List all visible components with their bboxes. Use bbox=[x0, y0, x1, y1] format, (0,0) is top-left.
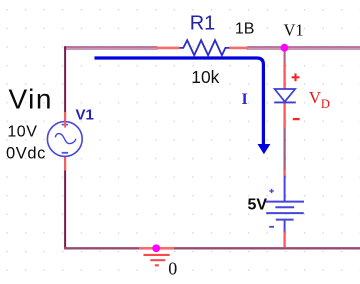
svg-text:10V: 10V bbox=[7, 124, 37, 141]
voltage source minus mark bbox=[62, 152, 68, 154]
wire left vertical bbox=[64, 46, 66, 112]
battery minus mark bbox=[269, 226, 274, 228]
resistor R1 body bbox=[180, 40, 230, 55]
voltage source plus mark bbox=[62, 124, 68, 126]
svg-text:V1: V1 bbox=[76, 107, 94, 124]
wire left vertical lower bbox=[64, 170, 66, 248]
svg-text:0Vdc: 0Vdc bbox=[6, 144, 46, 162]
diode triangle bbox=[275, 89, 296, 102]
wire right vertical upper (node to diode pin) bbox=[284, 49, 286, 63]
pin V1 source bottom bbox=[64, 153, 66, 171]
wire bottom rail bbox=[64, 247, 360, 249]
ground symbol line 3 bbox=[155, 264, 159, 266]
diode plus mark (red) bbox=[292, 73, 300, 81]
pin battery top bbox=[283, 170, 285, 176]
battery plate 3 long bbox=[266, 212, 304, 214]
pin R1 right bbox=[229, 47, 248, 50]
svg-text:10k: 10k bbox=[191, 67, 219, 87]
junction node top (V1 node) bbox=[281, 44, 289, 52]
svg-text:V: V bbox=[309, 88, 322, 107]
battery plate 2 short bbox=[275, 206, 294, 208]
svg-text:I: I bbox=[242, 91, 248, 108]
voltage source plus vertical (red pin through) bbox=[64, 121, 66, 127]
pin diode top bbox=[283, 63, 285, 90]
wire right vertical mid (diode to battery) bbox=[284, 128, 286, 171]
ground symbol line 2 bbox=[150, 259, 165, 261]
pin ground (horizontal red over bottom rail) bbox=[139, 247, 174, 250]
battery plus mark bbox=[269, 189, 273, 193]
voltage source sine wave bbox=[55, 134, 75, 144]
wire top rail right segment bbox=[247, 46, 360, 50]
svg-text:D: D bbox=[321, 97, 330, 111]
current arrow I shaft bbox=[95, 58, 264, 145]
pin diode bottom bbox=[283, 102, 285, 128]
ground symbol line 1 bbox=[144, 254, 170, 256]
battery top vertical bbox=[284, 176, 286, 202]
pin V1 source top bbox=[64, 112, 66, 128]
diode minus mark (red) bbox=[293, 118, 300, 120]
svg-text:V1: V1 bbox=[284, 21, 304, 40]
diode voltage label V_D bbox=[309, 88, 330, 111]
wire top rail left segment bbox=[64, 46, 158, 50]
battery plate 4 short bbox=[276, 219, 294, 221]
svg-text:R1: R1 bbox=[190, 13, 216, 35]
junction node bottom (ground node) bbox=[152, 244, 160, 252]
battery plate 1 long bbox=[266, 201, 304, 203]
pin R1 left bbox=[157, 47, 180, 50]
voltage source V1 circle bbox=[47, 122, 82, 157]
svg-text:0: 0 bbox=[168, 258, 177, 278]
battery bottom vertical bbox=[284, 220, 286, 232]
current arrow head bbox=[258, 144, 271, 154]
pin battery bottom bbox=[283, 231, 285, 247]
svg-text:5V: 5V bbox=[248, 196, 268, 213]
diode cathode bar bbox=[274, 101, 296, 103]
svg-text:Vin: Vin bbox=[9, 84, 53, 115]
svg-text:1B: 1B bbox=[235, 20, 255, 37]
